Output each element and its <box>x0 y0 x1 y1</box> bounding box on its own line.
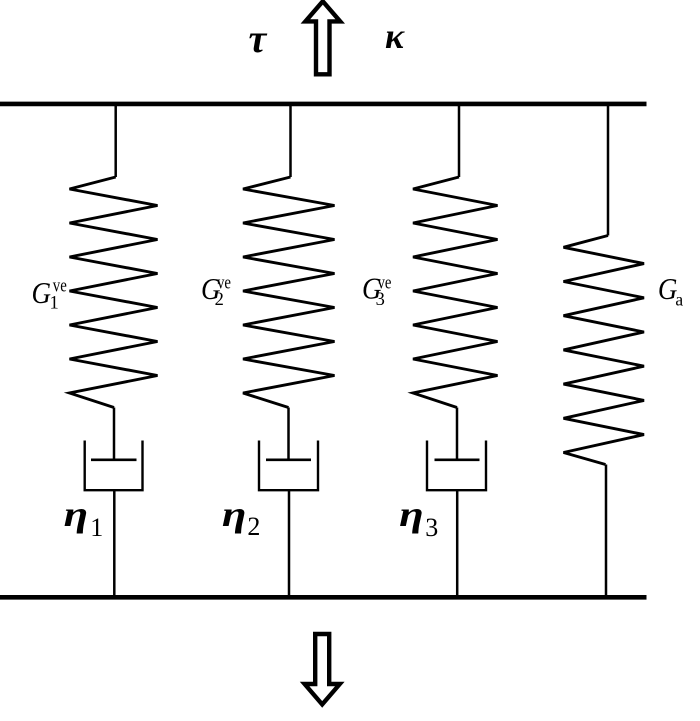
label G2ve <box>201 271 231 310</box>
svg-text:2: 2 <box>215 290 224 310</box>
wire: branch 4 bottom <box>605 465 608 598</box>
dashpot eta3: cup <box>427 441 486 491</box>
svg-text:τ: τ <box>249 16 268 61</box>
label eta1 <box>64 494 104 542</box>
svg-text:κ: κ <box>385 16 405 56</box>
wire: branch 1 top <box>114 104 117 177</box>
svg-text:2: 2 <box>247 512 260 541</box>
label eta2 <box>222 494 261 541</box>
label G1ve <box>32 275 67 314</box>
wire: dashpot 3 to bottom plate <box>456 490 459 597</box>
dashpot eta2: cup <box>259 441 318 491</box>
svg-text:1: 1 <box>90 513 103 542</box>
svg-text:η: η <box>399 494 424 534</box>
top plate <box>0 102 647 107</box>
label Ga <box>658 271 684 309</box>
wire: spring 2 to dashpot 2 piston <box>287 408 290 460</box>
resulting strain arrow (down) <box>305 634 340 704</box>
svg-text:η: η <box>222 494 247 534</box>
spring Ga <box>564 236 645 465</box>
svg-text:η: η <box>64 494 88 534</box>
label eta3 <box>399 494 438 542</box>
svg-text:a: a <box>675 289 683 309</box>
wire: spring 1 to dashpot 1 piston <box>113 408 116 460</box>
wire: branch 3 top <box>458 104 461 177</box>
svg-text:3: 3 <box>376 290 385 310</box>
applied stress arrow (up) <box>305 1 340 74</box>
svg-text:3: 3 <box>425 513 438 542</box>
wire: branch 4 top <box>607 104 610 236</box>
wire: spring 3 to dashpot 3 piston <box>456 408 459 460</box>
wire: dashpot 1 to bottom plate <box>113 490 116 597</box>
dashpot eta3: piston <box>435 458 480 461</box>
wire: dashpot 2 to bottom plate <box>288 490 291 597</box>
svg-text:G: G <box>32 275 52 310</box>
dashpot eta1: cup <box>85 441 143 491</box>
label G3ve <box>362 271 392 311</box>
wire: branch 2 top <box>289 104 292 177</box>
svg-text:1: 1 <box>50 293 59 313</box>
spring G2ve <box>243 177 335 408</box>
dashpot eta2: piston <box>266 458 311 461</box>
bottom plate <box>0 595 647 600</box>
spring G1ve <box>70 177 158 408</box>
spring G3ve <box>413 177 498 408</box>
dashpot eta1: piston <box>91 458 137 461</box>
